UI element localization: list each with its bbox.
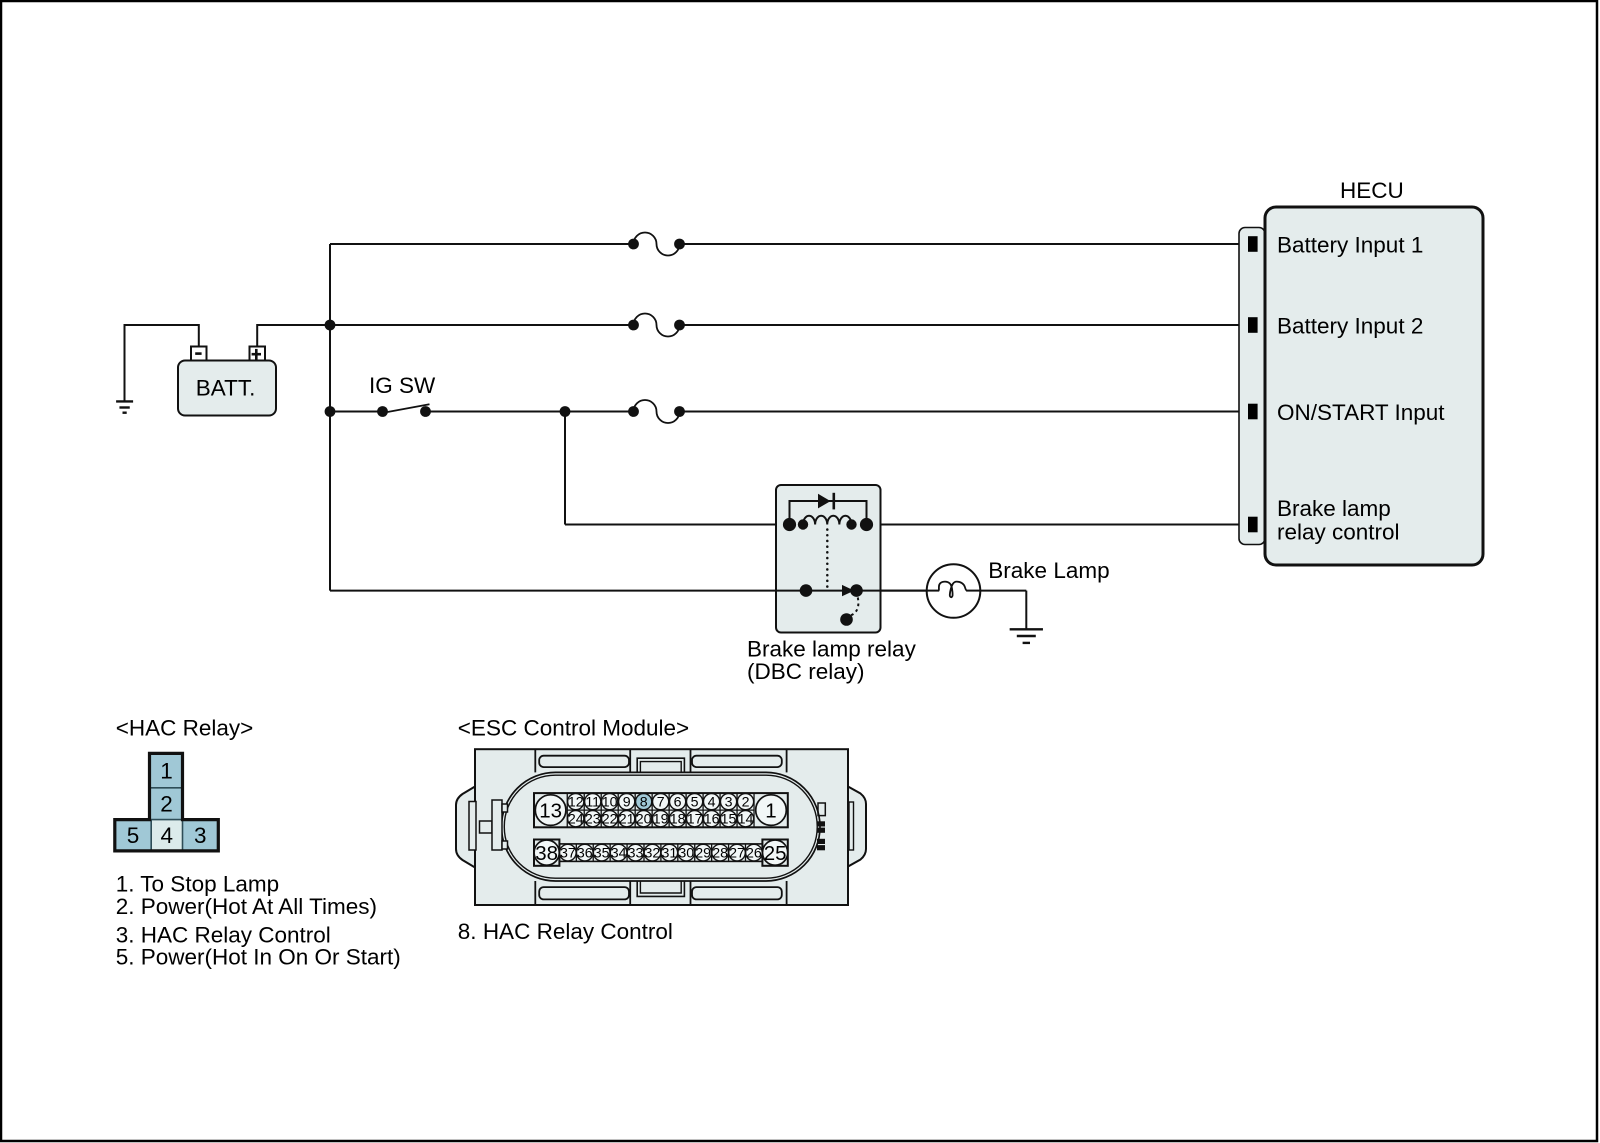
svg-text:4: 4 <box>161 823 174 848</box>
svg-text:38: 38 <box>535 842 558 865</box>
svg-text:21: 21 <box>619 811 635 827</box>
svg-text:17: 17 <box>687 811 703 827</box>
svg-text:24: 24 <box>568 811 584 827</box>
svg-text:18: 18 <box>670 811 686 827</box>
svg-text:2: 2 <box>160 791 173 816</box>
svg-text:4: 4 <box>708 794 716 810</box>
svg-text:35: 35 <box>594 845 610 861</box>
svg-text:3. HAC Relay Control: 3. HAC Relay Control <box>116 922 331 947</box>
svg-text:<HAC Relay>: <HAC Relay> <box>116 716 254 741</box>
svg-text:32: 32 <box>645 845 661 861</box>
svg-text:27: 27 <box>729 845 745 861</box>
svg-text:<ESC Control Module>: <ESC Control Module> <box>458 716 689 741</box>
svg-text:10: 10 <box>602 794 618 810</box>
svg-text:2: 2 <box>742 794 750 810</box>
svg-text:31: 31 <box>661 845 677 861</box>
svg-text:15: 15 <box>721 811 737 827</box>
svg-text:25: 25 <box>764 842 787 865</box>
svg-text:3: 3 <box>725 794 733 810</box>
svg-text:29: 29 <box>695 845 711 861</box>
svg-text:30: 30 <box>678 845 694 861</box>
svg-text:33: 33 <box>628 845 644 861</box>
svg-text:Brake Lamp: Brake Lamp <box>988 558 1109 583</box>
svg-text:5: 5 <box>691 794 699 810</box>
svg-text:8: 8 <box>640 794 648 810</box>
svg-text:(DBC relay): (DBC relay) <box>747 659 865 684</box>
svg-text:relay control: relay control <box>1277 520 1400 545</box>
svg-text:HECU: HECU <box>1340 178 1404 203</box>
svg-text:34: 34 <box>611 845 627 861</box>
svg-text:16: 16 <box>704 811 720 827</box>
svg-text:IG SW: IG SW <box>369 373 436 398</box>
svg-text:26: 26 <box>746 845 762 861</box>
svg-text:37: 37 <box>560 845 576 861</box>
svg-text:1. To Stop Lamp: 1. To Stop Lamp <box>116 871 279 896</box>
svg-text:BATT.: BATT. <box>196 375 256 400</box>
svg-text:20: 20 <box>636 811 652 827</box>
svg-text:6: 6 <box>674 794 682 810</box>
svg-text:19: 19 <box>653 811 669 827</box>
svg-text:9: 9 <box>623 794 631 810</box>
svg-text:Brake lamp relay: Brake lamp relay <box>747 637 917 662</box>
svg-text:14: 14 <box>738 811 754 827</box>
svg-text:Brake lamp: Brake lamp <box>1277 496 1391 521</box>
svg-text:7: 7 <box>657 794 665 810</box>
svg-text:5. Power(Hot In On Or Start): 5. Power(Hot In On Or Start) <box>116 945 401 970</box>
svg-text:8. HAC Relay Control: 8. HAC Relay Control <box>458 919 673 944</box>
svg-text:23: 23 <box>585 811 601 827</box>
svg-text:1: 1 <box>160 758 173 783</box>
svg-text:ON/START Input: ON/START Input <box>1277 400 1445 425</box>
svg-text:28: 28 <box>712 845 728 861</box>
svg-text:11: 11 <box>585 794 600 810</box>
svg-text:13: 13 <box>539 800 562 823</box>
svg-text:1: 1 <box>765 800 776 823</box>
svg-text:3: 3 <box>194 823 207 848</box>
svg-text:5: 5 <box>127 823 140 848</box>
svg-text:Battery Input 1: Battery Input 1 <box>1277 233 1423 258</box>
svg-text:22: 22 <box>602 811 618 827</box>
svg-text:12: 12 <box>568 794 584 810</box>
svg-text:Battery Input 2: Battery Input 2 <box>1277 314 1423 339</box>
svg-text:36: 36 <box>577 845 593 861</box>
svg-text:2. Power(Hot At All Times): 2. Power(Hot At All Times) <box>116 894 377 919</box>
